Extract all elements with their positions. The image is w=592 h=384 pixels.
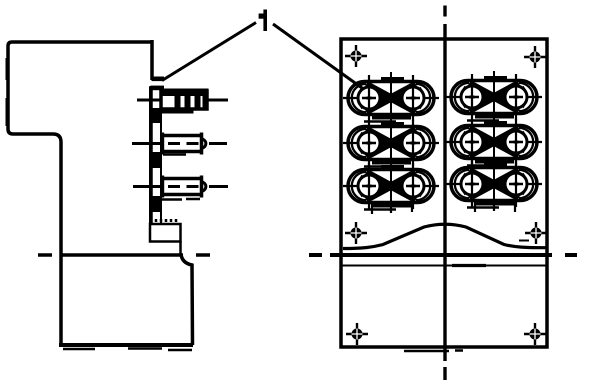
stud 3 (bottom) [161,176,206,200]
terminal group row3 right [446,161,542,208]
terminal group row1 left [343,75,439,122]
terminal group row2 right [446,119,542,166]
plate foot bracket [150,219,181,254]
left view body outline [8,40,152,346]
stud mounting plate [150,77,164,225]
stud 1 (threaded, top) [160,89,208,113]
right column centerline [493,71,495,211]
screw top-left [345,45,367,67]
stud 3 centerline [133,185,228,188]
hump curve [343,224,547,248]
left view centerline dashes [38,253,210,257]
terminal group row2 left [343,120,439,167]
bottom edge hatch marks [404,349,463,352]
inner seam line [342,265,546,267]
callout label 1 [259,10,267,32]
screw bottom-left [346,323,368,345]
terminal group row3 left [343,163,439,210]
screw mid-right [525,222,547,244]
screw mid-left [345,222,367,244]
leader line to side view [162,23,256,81]
noise dash near hump [519,240,529,242]
stud 1 centerline [137,99,228,102]
ticks below row3 groups [372,202,515,214]
left column centerline [390,72,392,213]
terminal group row1 right [446,74,542,121]
stud 2 centerline [132,142,227,145]
lower block bottom rough marks [63,349,192,351]
left edge scan thickening [6,58,8,126]
front view vertical centerline [443,6,446,381]
lower block of left view [59,254,193,345]
front view horizontal centerline [309,253,577,257]
leader line to front view [273,24,369,93]
screw bottom-right [524,323,546,345]
front view plate outline [341,39,547,347]
screw top-right [524,46,546,68]
stud 2 (middle) [161,133,206,155]
